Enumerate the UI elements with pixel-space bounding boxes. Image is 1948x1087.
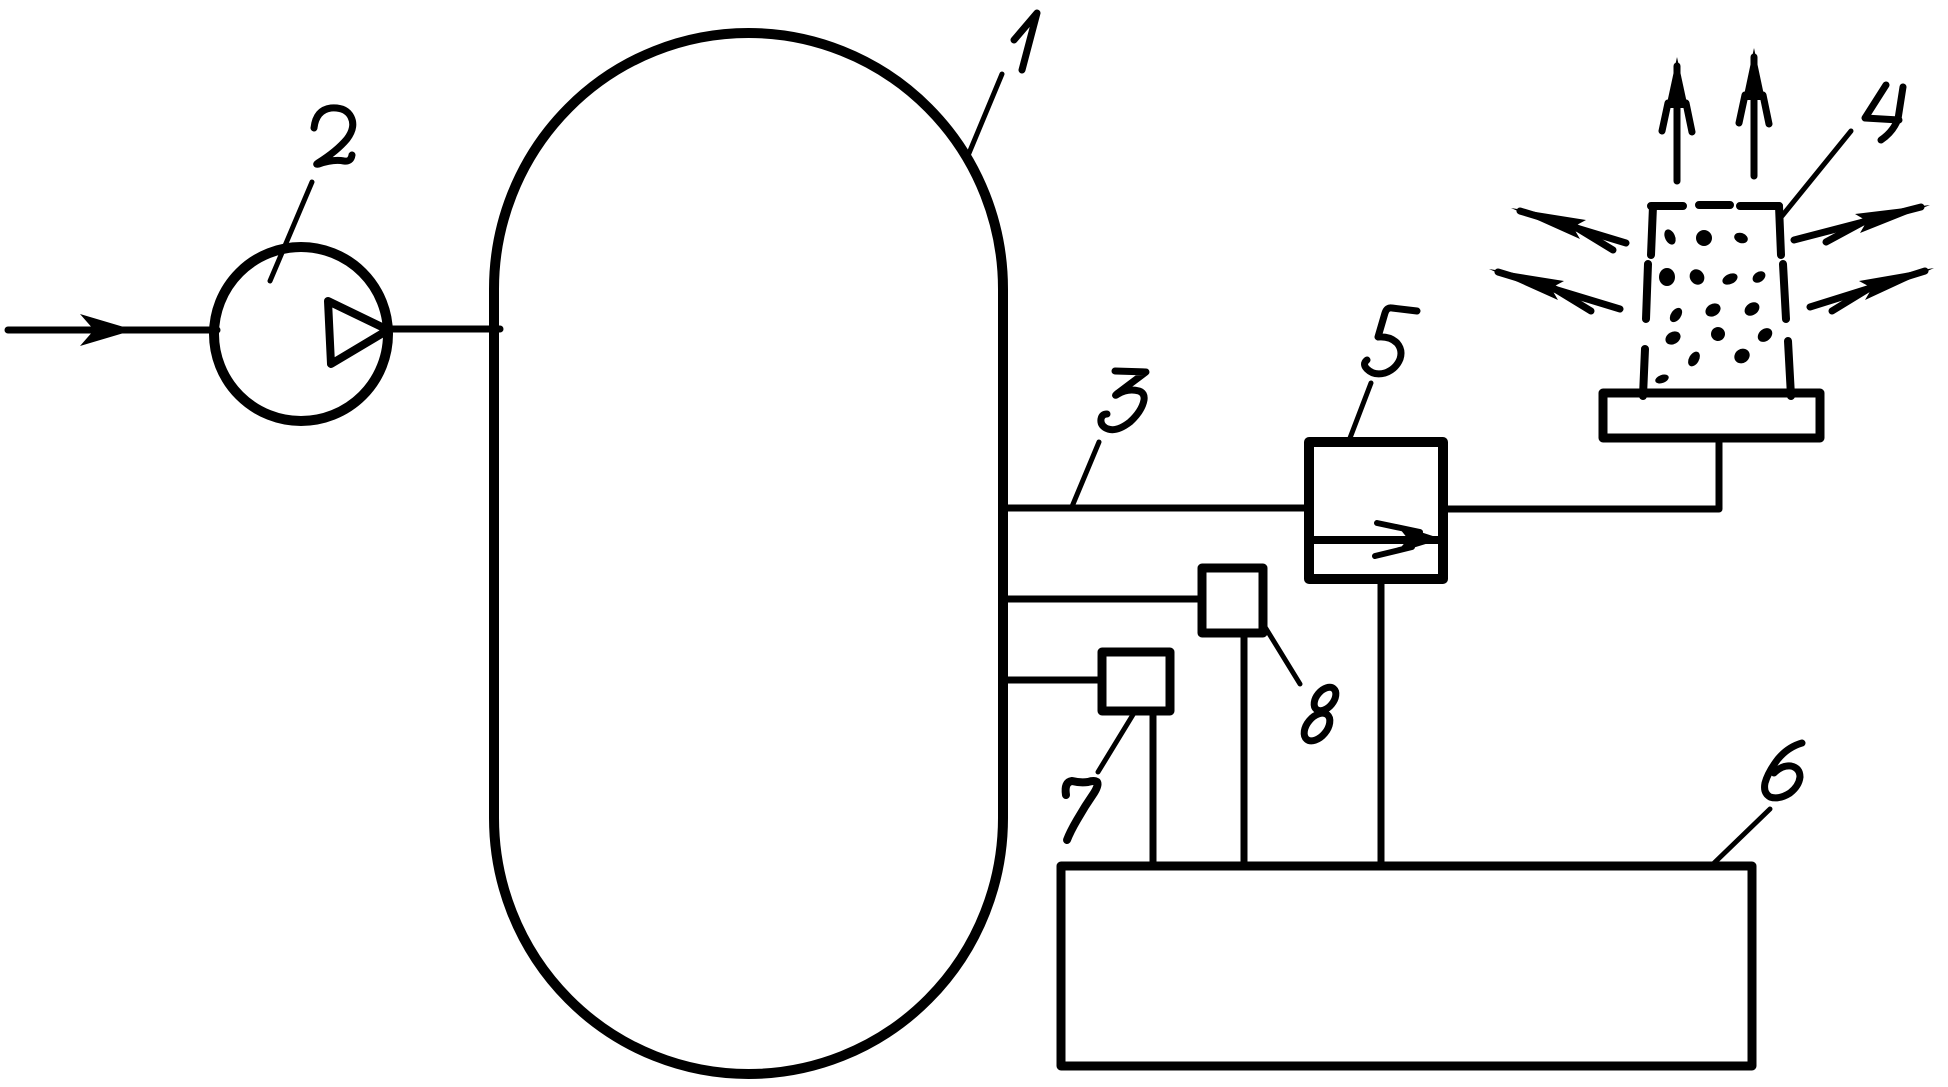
control unit 6 (box) — [1061, 866, 1752, 1066]
nozzle 4 base plate — [1603, 393, 1820, 438]
leader line for label 2 — [270, 182, 312, 281]
nozzle 4 left side — [1643, 206, 1653, 396]
spray right arrow lower barb — [1832, 289, 1868, 311]
valve 5 flow arrow barb — [1375, 547, 1412, 556]
valve 5 (box) — [1309, 442, 1443, 579]
leader line for label 4 — [1782, 131, 1851, 216]
pump 2 (circle) — [214, 247, 388, 421]
label 7 — [1066, 781, 1098, 840]
leader line for label 8 — [1265, 627, 1300, 684]
spray up arrow B head — [1743, 48, 1765, 100]
spray left arrow upper head — [1511, 208, 1586, 239]
label 1 — [1014, 13, 1037, 70]
valve 5 flow arrowhead — [1396, 524, 1442, 553]
spray right arrow upper head — [1855, 205, 1930, 233]
wire: valve 5 down to control unit 6 — [1378, 579, 1385, 866]
sensor 7 (box) — [1102, 652, 1170, 711]
leader line for label 5 — [1350, 383, 1371, 438]
wire: vessel to sensor 8 — [1003, 596, 1202, 603]
wire: sensor 8 down to control unit 6 — [1241, 633, 1248, 866]
spray left arrow lower head — [1489, 269, 1564, 300]
wire: pump to vessel — [387, 326, 500, 333]
inlet flow arrowhead — [80, 314, 134, 346]
leader line for label 7 — [1098, 713, 1134, 772]
label 2 — [314, 108, 353, 164]
nozzle 4 spray dots — [1654, 228, 1775, 386]
wire: vessel to sensor 7 — [1003, 677, 1102, 684]
spray up arrow A head — [1666, 57, 1688, 108]
spray right arrow upper shaft — [1794, 207, 1921, 240]
label 8 — [1299, 683, 1340, 745]
spray up arrow B shaft — [1751, 57, 1758, 176]
spray right arrow lower shaft — [1810, 271, 1925, 307]
label 5 — [1365, 308, 1418, 374]
nozzle 4 dashed top — [1651, 205, 1779, 206]
spray left arrow lower barb — [1555, 289, 1591, 311]
spray left arrow lower shaft — [1498, 272, 1620, 309]
spray right arrow lower head — [1859, 268, 1934, 300]
label 6 — [1765, 743, 1802, 798]
leader line for label 3 — [1071, 442, 1099, 509]
leader line for label 6 — [1711, 809, 1770, 866]
wire: pipe 3 from vessel to valve 5 — [1003, 505, 1309, 512]
spray up arrow A shaft — [1674, 66, 1681, 181]
spray up arrow A barbs — [1662, 103, 1692, 132]
pump 2 internal triangle — [328, 301, 388, 364]
label 4 — [1865, 85, 1903, 140]
nozzle 4 right side — [1779, 206, 1791, 396]
wire: inlet line into pump — [8, 327, 217, 334]
vessel 1 (accumulator tank, stadium shape) — [494, 33, 1003, 1074]
label 3 — [1101, 371, 1146, 430]
valve 5 internal line — [1313, 536, 1440, 544]
sensor 8 (box) — [1202, 568, 1263, 633]
spray right arrow upper barb — [1826, 222, 1863, 242]
spray left arrow upper barb — [1577, 228, 1613, 250]
spray up arrow B barbs — [1739, 95, 1769, 124]
wire: sensor 7 down to control unit 6 — [1150, 711, 1157, 866]
leader line for label 1 — [967, 74, 1002, 158]
valve 5 flow arrow shaft — [1377, 523, 1420, 532]
wire: valve 5 outlet to riser — [1443, 438, 1719, 509]
spray left arrow upper shaft — [1520, 211, 1626, 243]
